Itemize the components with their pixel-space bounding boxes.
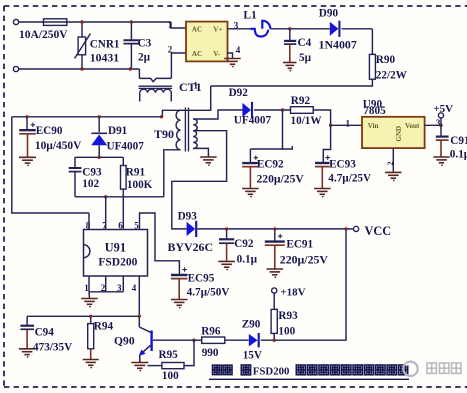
resistor R95 <box>162 363 184 369</box>
wire <box>225 339 249 341</box>
ground (C92) <box>218 261 235 267</box>
wire <box>228 28 251 30</box>
capacitor EC90 plates <box>19 129 36 131</box>
diode D90 1N4007 <box>330 22 339 36</box>
svg-text:Vout: Vout <box>405 122 420 130</box>
ground (EC93) <box>314 189 331 195</box>
pin 7 wire <box>105 197 107 230</box>
transformer T90 secondary winding <box>193 119 197 148</box>
svg-text:U91: U91 <box>105 241 126 255</box>
caption underline <box>209 378 409 380</box>
wire <box>162 86 210 117</box>
terminal VCC <box>354 226 359 231</box>
wire <box>19 68 140 70</box>
svg-text:C4: C4 <box>298 37 312 49</box>
svg-text:22/2W: 22/2W <box>376 70 408 82</box>
svg-text:D93: D93 <box>178 211 198 223</box>
pin 4 wire <box>138 276 140 327</box>
wire (pin4 rail) <box>27 315 139 317</box>
svg-text:0.1µ: 0.1µ <box>237 253 258 265</box>
wire <box>194 339 202 341</box>
svg-text:1: 1 <box>194 81 199 91</box>
svg-text:4.7µ/25V: 4.7µ/25V <box>328 172 371 184</box>
svg-text:R92: R92 <box>291 95 311 107</box>
varistor CNR1 <box>81 22 83 37</box>
svg-text:15V: 15V <box>243 349 262 361</box>
capacitor C3 <box>130 22 132 40</box>
svg-text:EC93: EC93 <box>329 159 356 171</box>
svg-text:1: 1 <box>346 118 351 128</box>
svg-text:4: 4 <box>236 45 241 55</box>
svg-text:D91: D91 <box>108 125 128 137</box>
ground (EC92) <box>242 189 259 195</box>
svg-text:VCC: VCC <box>365 224 392 238</box>
svg-text:220µ/25V: 220µ/25V <box>257 173 305 186</box>
svg-text:5µ: 5µ <box>299 52 312 64</box>
svg-text:C92: C92 <box>234 238 254 250</box>
wire (EC93 branch) <box>323 125 330 163</box>
svg-text:102: 102 <box>82 178 99 190</box>
resistor R94 <box>90 316 92 323</box>
svg-text:10431: 10431 <box>90 50 120 64</box>
svg-text:10µ/450V: 10µ/450V <box>35 140 82 152</box>
svg-text:220µ/25V: 220µ/25V <box>280 252 329 266</box>
svg-text:T90: T90 <box>154 127 174 141</box>
svg-text:473/35V: 473/35V <box>33 342 72 354</box>
wire (VCC rail) <box>197 228 353 230</box>
diode D91 UF4007 (vertical, pointing up) <box>98 117 100 132</box>
wire <box>273 333 275 340</box>
svg-text:10A/250V: 10A/250V <box>19 29 68 41</box>
terminal +5V <box>438 113 443 118</box>
wire <box>19 21 44 23</box>
capacitor C91 <box>440 125 442 136</box>
svg-text:+18V: +18V <box>280 287 305 299</box>
resistor R90 <box>369 54 375 79</box>
ground (U91) <box>81 299 98 305</box>
wire (secondary top to D92) <box>193 110 242 119</box>
svg-text:V+: V+ <box>213 26 222 34</box>
wire (aux tap to D93) <box>172 131 227 229</box>
svg-text:R94: R94 <box>94 320 114 332</box>
svg-text:EC92: EC92 <box>257 159 284 171</box>
svg-text:1: 1 <box>168 20 173 30</box>
svg-text:UF4007: UF4007 <box>107 141 145 153</box>
ground (C91) <box>433 157 450 163</box>
svg-text:AC: AC <box>192 50 202 58</box>
svg-text:8: 8 <box>86 221 91 231</box>
wire <box>211 79 373 86</box>
pin 1 stub <box>88 276 90 292</box>
capacitor EC91 <box>265 240 285 242</box>
wire <box>371 29 373 55</box>
svg-text:C94: C94 <box>35 326 55 338</box>
R95 branch <box>184 340 194 365</box>
svg-text:100: 100 <box>162 370 179 382</box>
wire <box>171 22 186 28</box>
svg-text:FSD200: FSD200 <box>253 366 290 378</box>
svg-text:D92: D92 <box>229 87 249 99</box>
terminal +18V <box>272 288 277 293</box>
wire <box>313 110 362 125</box>
diode D92 UF4007 <box>242 103 251 117</box>
ground (R94) <box>83 360 99 366</box>
ground (U90 pin2) <box>385 172 402 178</box>
ground (EC95) <box>171 300 188 306</box>
pin 2 stub <box>105 276 107 292</box>
watermark 电子报 <box>427 363 461 373</box>
svg-text:V-: V- <box>213 50 221 58</box>
capacitor C92 <box>226 229 228 239</box>
caption 图三 (figure 3) <box>213 365 233 374</box>
ground (bridge V-) <box>224 59 241 65</box>
ground (EC91) <box>267 269 284 275</box>
svg-text:R93: R93 <box>278 310 298 322</box>
svg-text:10/1W: 10/1W <box>291 115 323 127</box>
wire <box>138 69 140 78</box>
svg-text:EC90: EC90 <box>36 125 63 137</box>
svg-text:CNR1: CNR1 <box>90 39 120 51</box>
fuse 10A/250V <box>44 19 67 26</box>
wire <box>342 28 373 30</box>
resistor R96 <box>202 337 225 343</box>
terminal +18V wire <box>273 293 275 309</box>
wire (HV+ rail) <box>12 116 163 118</box>
wire (VCC to feedback rail) <box>261 229 346 340</box>
svg-text:Vin: Vin <box>368 122 379 130</box>
choke CT1 bottom winding <box>140 89 172 101</box>
resistor R92 <box>291 107 314 114</box>
capacitor EC90 <box>26 117 28 130</box>
svg-text:C3: C3 <box>138 38 152 50</box>
svg-text:R90: R90 <box>376 54 396 66</box>
svg-text:0.1µ: 0.1µ <box>450 149 467 161</box>
regulator U90 7805 <box>362 117 425 148</box>
capacitor EC95 <box>171 274 188 276</box>
base wire <box>153 339 194 341</box>
svg-text:+5V: +5V <box>433 103 453 115</box>
capacitor C4 <box>289 29 291 41</box>
wire <box>148 365 162 367</box>
svg-text:R96: R96 <box>201 325 221 337</box>
ground (Q90 emitter) <box>131 363 148 369</box>
wire <box>254 109 291 111</box>
svg-text:6: 6 <box>118 221 123 231</box>
watermark logo <box>403 362 417 376</box>
diode D93 BYV26C <box>187 222 196 236</box>
ground (EC90) <box>19 157 36 163</box>
svg-text:7: 7 <box>102 221 107 231</box>
svg-text:7805: 7805 <box>363 105 386 117</box>
resistor R91 <box>122 157 124 165</box>
ground (C94) <box>19 349 35 355</box>
svg-text:990: 990 <box>202 347 219 359</box>
terminal AC input N <box>13 66 18 71</box>
svg-text:Q90: Q90 <box>114 334 135 347</box>
terminal AC input L <box>13 19 18 24</box>
svg-text:4.7µ/50V: 4.7µ/50V <box>187 287 230 299</box>
choke CT1 core <box>139 85 173 87</box>
svg-text:4: 4 <box>132 283 137 293</box>
pin 5 wire <box>140 213 180 275</box>
wire (secondary bottom) <box>193 148 208 157</box>
capacitor EC93 <box>315 162 330 164</box>
caption text 以FSD200为核心组成的开关电源 <box>241 365 250 375</box>
svg-text:UF4007: UF4007 <box>234 115 272 127</box>
svg-text:Z90: Z90 <box>242 318 261 330</box>
capacitor C94 <box>26 316 28 325</box>
svg-text:2µ: 2µ <box>138 52 151 64</box>
capacitor EC92 <box>242 162 259 164</box>
svg-text:GND: GND <box>395 126 403 142</box>
svg-text:BYV26C: BYV26C <box>168 240 214 254</box>
inductor L1 <box>250 21 270 37</box>
wire <box>228 53 233 59</box>
wire (EC92 branch) <box>250 110 282 149</box>
snubber network wires <box>75 156 123 158</box>
svg-text:C91: C91 <box>450 135 467 147</box>
svg-text:CT1: CT1 <box>179 80 202 94</box>
svg-text:100: 100 <box>278 325 295 337</box>
wire <box>164 150 181 197</box>
svg-text:D90: D90 <box>319 8 339 20</box>
zener Z90 15V <box>249 334 258 347</box>
svg-text:100K: 100K <box>127 179 153 191</box>
wire (left bus) <box>12 117 89 213</box>
ground (secondary) <box>200 157 217 163</box>
transformer T90 primary winding <box>176 110 180 150</box>
wire <box>270 28 330 30</box>
pin 8 stub <box>88 213 90 230</box>
wire <box>171 53 186 78</box>
svg-text:C93: C93 <box>82 167 102 179</box>
wire <box>440 118 442 125</box>
wire (7805 GND) <box>392 148 394 172</box>
bridge rectifier <box>186 22 228 62</box>
svg-text:L1: L1 <box>243 10 257 22</box>
transformer T90 core <box>184 108 186 152</box>
svg-text:1N4007: 1N4007 <box>319 37 357 51</box>
svg-text:AC: AC <box>192 26 202 34</box>
svg-text:5: 5 <box>134 221 139 231</box>
transistor Q90 <box>139 327 150 332</box>
gnd bus pins 1-3 <box>89 291 123 293</box>
svg-text:R95: R95 <box>159 349 179 361</box>
choke CT1 top winding <box>139 78 171 81</box>
svg-text:EC91: EC91 <box>286 238 313 250</box>
ground (C4) <box>283 63 297 69</box>
capacitor C93 <box>69 167 82 169</box>
wire stub <box>283 146 293 149</box>
svg-text:FSD200: FSD200 <box>98 256 137 268</box>
wire <box>425 124 441 126</box>
resistor R93 <box>271 309 277 333</box>
IC U91 FSD200 <box>84 230 148 277</box>
pin 3 stub <box>122 276 124 292</box>
svg-text:R91: R91 <box>126 167 146 179</box>
svg-text:2: 2 <box>168 44 173 54</box>
wire <box>67 21 171 23</box>
svg-text:1: 1 <box>84 283 89 293</box>
svg-text:EC95: EC95 <box>188 273 215 285</box>
